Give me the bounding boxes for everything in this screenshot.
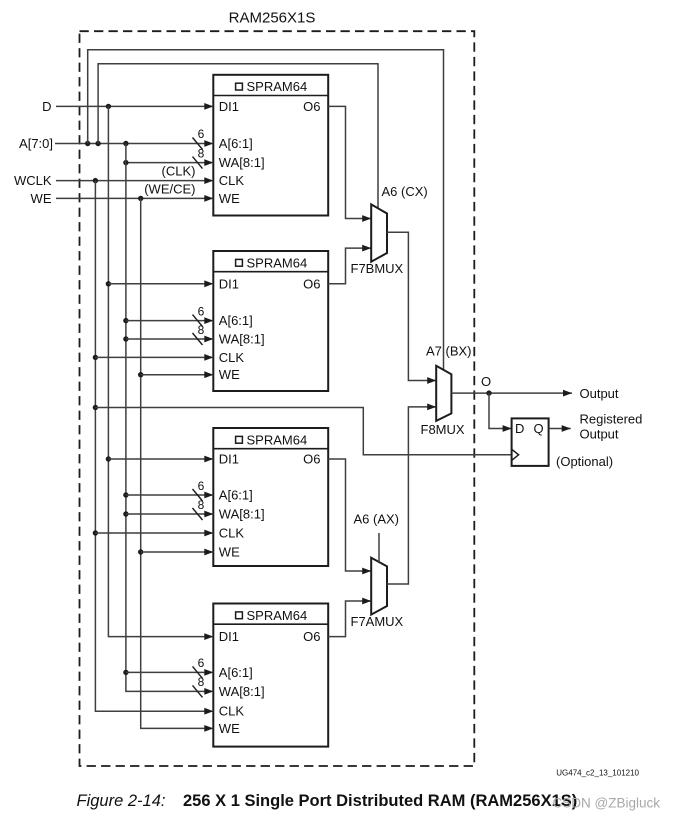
wire WA[8:1] branch to U1 with width-8 tick: [123, 157, 213, 169]
svg-text:Output: Output: [580, 386, 619, 401]
wire A6 select rail to F7BMUX: [98, 64, 378, 209]
wire U1 O6 to F7BMUX input 0: [328, 106, 371, 221]
svg-text:A[6:1]: A[6:1]: [219, 488, 253, 503]
wire CLK branch to U2: [95, 354, 213, 361]
svg-text:CLK: CLK: [219, 173, 245, 188]
svg-text:SPRAM64: SPRAM64: [247, 79, 308, 94]
svg-text:WCLK: WCLK: [14, 173, 52, 188]
wire A[6:1] branch to U4 with width-6 tick: [126, 666, 213, 678]
flip-flop pin label D: [515, 421, 524, 436]
svg-text:256 X 1 Single Port Distribute: 256 X 1 Single Port Distributed RAM (RAM…: [183, 792, 577, 810]
mux F7BMUX: [371, 204, 387, 261]
input label D: [42, 99, 51, 114]
svg-text:WE: WE: [219, 191, 240, 206]
node label O: [481, 374, 491, 389]
svg-text:DI1: DI1: [219, 276, 239, 291]
input label WCLK: [14, 173, 52, 188]
wire F7BMUX output to F8MUX input 0: [387, 232, 436, 384]
svg-text:6: 6: [198, 304, 205, 318]
svg-text:O6: O6: [303, 629, 320, 644]
svg-text:A[6:1]: A[6:1]: [219, 313, 253, 328]
svg-text:WE: WE: [31, 191, 52, 206]
svg-text:Output: Output: [580, 426, 619, 441]
bus width label 6 (U1): [198, 127, 205, 141]
svg-text:WA[8:1]: WA[8:1]: [219, 684, 265, 699]
wire A6 (AX) select stub: [378, 533, 380, 562]
label (CLK): [162, 164, 196, 179]
wire D input to U1 DI1: [56, 103, 213, 110]
svg-text:6: 6: [198, 127, 205, 141]
wire WE branch to U3: [141, 549, 214, 556]
label F7AMUX: [351, 614, 404, 629]
wire A[6:1] branch to U2 with width-6 tick: [126, 315, 213, 327]
bus width label 6 (U3): [198, 479, 205, 493]
wire WE vertical bus: [138, 198, 213, 731]
stamp UG474_c2_13_101210: [556, 768, 639, 777]
wire A7 select rail to F8MUX: [88, 50, 444, 370]
svg-text:A[7:0]: A[7:0]: [19, 136, 53, 151]
bus width label 8 (U4): [198, 675, 205, 689]
mux F8MUX: [436, 366, 451, 421]
svg-text:A[6:1]: A[6:1]: [219, 136, 253, 151]
label Output: [580, 386, 619, 401]
wire U2 O6 to F7BMUX input 1: [328, 245, 371, 284]
svg-text:6: 6: [198, 656, 205, 670]
svg-text:DI1: DI1: [219, 99, 239, 114]
svg-text:8: 8: [198, 146, 205, 160]
RAM256X1S dashed boundary box: [80, 31, 475, 766]
label (WE/CE): [144, 182, 195, 197]
svg-text:CLK: CLK: [219, 704, 245, 719]
svg-text:RAM256X1S: RAM256X1S: [229, 9, 316, 26]
svg-text:WA[8:1]: WA[8:1]: [219, 507, 265, 522]
svg-text:O6: O6: [303, 99, 320, 114]
svg-text:DI1: DI1: [219, 452, 239, 467]
svg-text:WE: WE: [219, 545, 240, 560]
bus width label 8 (U3): [198, 498, 205, 512]
wire WCLK to flip-flop clock: [95, 408, 511, 455]
svg-text:6: 6: [198, 479, 205, 493]
svg-text:SPRAM64: SPRAM64: [247, 432, 308, 447]
svg-text:SPRAM64: SPRAM64: [247, 608, 308, 623]
flip-flop FDR (optional register): [512, 418, 549, 466]
input label WE: [31, 191, 52, 206]
flip-flop pin label Q: [534, 421, 544, 436]
wire U3 O6 to F7AMUX input 0: [328, 459, 371, 574]
svg-text:O6: O6: [303, 452, 320, 467]
label Registered Output: [580, 412, 643, 442]
wire WCLK input to U1 CLK: [56, 177, 213, 184]
wire WE input to U1 WE: [56, 195, 213, 202]
svg-text:Registered: Registered: [580, 412, 643, 427]
svg-text:A6 (AX): A6 (AX): [354, 512, 400, 527]
wire WE branch to U2: [141, 371, 214, 378]
wire F7AMUX output to F8MUX input 1: [387, 404, 436, 585]
svg-text:CSDN @ZBigluck: CSDN @ZBigluck: [553, 795, 661, 810]
caption Figure 2-14: [77, 792, 578, 810]
svg-text:D: D: [42, 99, 51, 114]
svg-text:(CLK): (CLK): [162, 164, 196, 179]
svg-text:WE: WE: [219, 367, 240, 382]
wire O to flip-flop D input: [489, 393, 512, 432]
label (Optional): [556, 454, 613, 469]
svg-text:F8MUX: F8MUX: [421, 422, 465, 437]
svg-text:UG474_c2_13_101210: UG474_c2_13_101210: [556, 768, 639, 777]
wire CLK branch to U3: [95, 530, 213, 537]
svg-text:WA[8:1]: WA[8:1]: [219, 332, 265, 347]
svg-text:CLK: CLK: [219, 350, 245, 365]
wire WA[8:1] branch to U3 with width-8 tick: [126, 508, 213, 520]
mux F7AMUX: [371, 558, 387, 615]
block U4 SPRAM64: [213, 604, 328, 747]
label A6 (AX): [354, 512, 400, 527]
block U2 SPRAM64: [213, 251, 328, 391]
wire A[6:1] branch to U3 with width-6 tick: [126, 489, 213, 501]
svg-text:8: 8: [198, 498, 205, 512]
label F8MUX: [421, 422, 465, 437]
bus width label 6 (U2): [198, 304, 205, 318]
watermark CSDN @ZBigluck: [553, 795, 661, 810]
wire DI1 branch to U3: [108, 456, 213, 463]
wire flip-flop Q to Registered Output: [549, 425, 571, 432]
svg-text:8: 8: [198, 323, 205, 337]
wire WA[8:1] branch to U2 with width-8 tick: [126, 333, 213, 345]
svg-text:F7AMUX: F7AMUX: [351, 614, 404, 629]
svg-text:CLK: CLK: [219, 526, 245, 541]
svg-text:DI1: DI1: [219, 629, 239, 644]
block U1 SPRAM64: [213, 75, 328, 216]
svg-text:(Optional): (Optional): [556, 454, 613, 469]
wire F8MUX output O to Output: [451, 390, 572, 397]
svg-text:F7BMUX: F7BMUX: [351, 261, 404, 276]
title RAM256X1S: [229, 9, 316, 26]
svg-text:SPRAM64: SPRAM64: [247, 255, 308, 270]
svg-text:WA[8:1]: WA[8:1]: [219, 155, 265, 170]
wire D vertical bus: [106, 106, 214, 640]
svg-text:A7 (BX): A7 (BX): [426, 344, 472, 359]
svg-text:O6: O6: [303, 276, 320, 291]
wire U4 O6 to F7AMUX input 1: [328, 598, 371, 637]
svg-text:A6 (CX): A6 (CX): [382, 184, 428, 199]
bus width label 8 (U2): [198, 323, 205, 337]
wire A[7:0] input to U1 A[6:1] with width-6 tick: [55, 138, 213, 150]
svg-text:O: O: [481, 374, 491, 389]
wire A/WA vertical bus: [123, 144, 213, 698]
wire DI1 branch to U2: [108, 280, 213, 287]
bus width label 8 (U1): [198, 146, 205, 160]
svg-text:A[6:1]: A[6:1]: [219, 665, 253, 680]
svg-text:D: D: [515, 421, 524, 436]
wire WCLK vertical bus: [93, 181, 214, 715]
block U3 SPRAM64: [213, 428, 328, 566]
svg-text:Q: Q: [534, 421, 544, 436]
bus width label 6 (U4): [198, 656, 205, 670]
label F7BMUX: [351, 261, 404, 276]
label A6 (CX): [382, 184, 428, 199]
svg-text:(WE/CE): (WE/CE): [144, 182, 195, 197]
svg-text:WE: WE: [219, 721, 240, 736]
label A7 (BX): [426, 344, 472, 359]
input label A[7:0]: [19, 136, 53, 151]
svg-text:Figure 2-14:: Figure 2-14:: [77, 792, 166, 810]
